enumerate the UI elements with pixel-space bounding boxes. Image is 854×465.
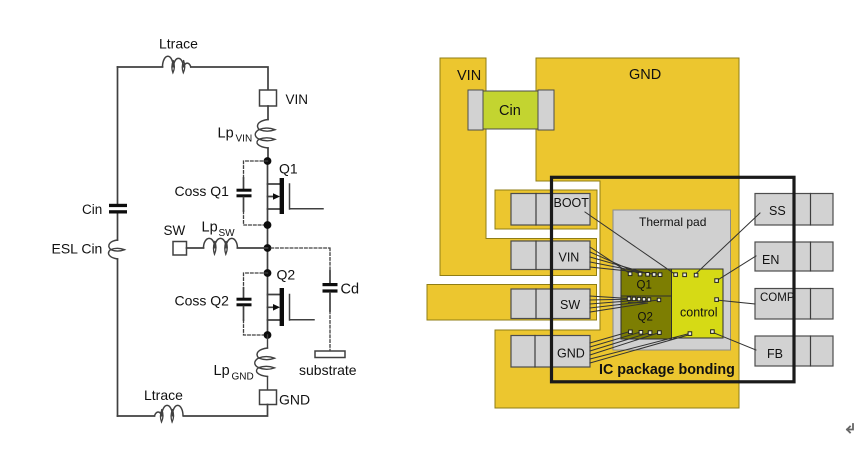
svg-text:VIN: VIN bbox=[236, 134, 253, 145]
svg-text:Cin: Cin bbox=[82, 202, 102, 217]
transistor Q2 bbox=[268, 288, 315, 326]
copper VIN trace bbox=[440, 58, 597, 276]
inductor LpVIN bbox=[255, 120, 275, 149]
bond wires GND pad to Q2 bottom pads bbox=[590, 332, 690, 364]
transistor Q1 bbox=[268, 178, 324, 214]
wire SW to coil bbox=[187, 247, 204, 249]
die Q1 Q2 bbox=[621, 269, 672, 339]
IC package bonding border box bbox=[552, 177, 795, 381]
pad EN bbox=[755, 242, 833, 271]
svg-text:control: control bbox=[680, 306, 718, 320]
capacitor Cin bbox=[109, 204, 127, 214]
pad FB bbox=[755, 336, 833, 366]
node Q1-source bbox=[264, 221, 272, 229]
wire top-left horizontal bbox=[118, 66, 163, 68]
pad symbol VIN bbox=[260, 90, 277, 106]
svg-text:Ltrace: Ltrace bbox=[159, 36, 198, 52]
inductor Ltrace (bottom) bbox=[155, 405, 184, 422]
svg-text:Lp: Lp bbox=[214, 363, 230, 379]
svg-text:IC package bonding: IC package bonding bbox=[599, 362, 735, 378]
pad COMP bbox=[755, 289, 833, 320]
node Q2-drain bbox=[264, 269, 272, 277]
svg-text:Q1: Q1 bbox=[279, 161, 298, 177]
bond pads bottom row Q2 bbox=[629, 330, 662, 334]
svg-text:GND: GND bbox=[557, 347, 585, 361]
svg-text:substrate: substrate bbox=[299, 362, 357, 378]
inductor LpGND bbox=[255, 335, 275, 390]
pad VIN bbox=[511, 241, 590, 270]
svg-text:Q2: Q2 bbox=[277, 267, 296, 283]
pad symbol GND bbox=[260, 390, 277, 405]
svg-text:BOOT: BOOT bbox=[554, 196, 590, 210]
svg-text:Q1: Q1 bbox=[637, 280, 652, 292]
svg-text:EN: EN bbox=[762, 253, 779, 267]
label Lp GND bbox=[214, 363, 254, 383]
svg-text:Lp: Lp bbox=[202, 220, 218, 236]
bond pads row top control bbox=[674, 273, 698, 277]
svg-text:SW: SW bbox=[560, 298, 580, 312]
copper GND plane bbox=[495, 58, 739, 408]
pad SW bbox=[511, 289, 590, 319]
inductor LpSW bbox=[204, 238, 238, 254]
svg-text:Q2: Q2 bbox=[638, 312, 653, 324]
svg-text:SW: SW bbox=[164, 223, 186, 238]
capacitor Cin pad right bbox=[538, 90, 554, 130]
bond wire SS to control bbox=[696, 213, 761, 274]
copper BOOT pad rect bbox=[495, 190, 597, 229]
die divider Q1/Q2 bbox=[621, 295, 672, 297]
inductor Ltrace (top) bbox=[163, 56, 191, 72]
bond wire EN to control bbox=[716, 256, 756, 281]
wire coil to SW node bbox=[237, 247, 267, 249]
wire LpVIN to node bbox=[267, 148, 269, 161]
svg-text:VIN: VIN bbox=[457, 68, 481, 84]
bond wires SW pad to middle pads bbox=[590, 296, 659, 312]
svg-text:Thermal pad: Thermal pad bbox=[639, 215, 706, 229]
pad GND bbox=[511, 336, 590, 368]
paragraph return mark bbox=[847, 424, 853, 433]
svg-text:Coss Q1: Coss Q1 bbox=[175, 183, 230, 199]
bond pads middle row bbox=[627, 297, 660, 302]
svg-text:Ltrace: Ltrace bbox=[144, 387, 183, 403]
wire left vertical upper bbox=[117, 67, 119, 416]
substrate terminal bbox=[315, 351, 345, 358]
capacitor Cd dashed branch bbox=[271, 248, 338, 351]
main vertical wire through Q1 Q2 bbox=[267, 161, 269, 335]
bond wire FB to control bbox=[713, 333, 756, 351]
pad BOOT bbox=[511, 194, 590, 226]
bond pads row top Q1 bbox=[628, 272, 662, 277]
wire top horizontal to VIN corner bbox=[191, 67, 268, 90]
node VIN-Q1 bbox=[264, 157, 272, 165]
svg-text:Cd: Cd bbox=[341, 282, 360, 298]
wire VIN to LpVIN bbox=[267, 106, 269, 120]
svg-text:GND: GND bbox=[232, 372, 254, 383]
svg-text:SW: SW bbox=[219, 228, 236, 239]
bond wire BOOT to control bbox=[585, 212, 674, 274]
bond wires VIN pad to Q1 top pads bbox=[590, 247, 660, 275]
bond pads control right edge bbox=[715, 279, 719, 302]
capacitor Coss Q2 bbox=[237, 273, 268, 335]
label Lp SW bbox=[202, 220, 236, 240]
wire bottom right bbox=[184, 405, 268, 417]
svg-text:ESL Cin: ESL Cin bbox=[52, 241, 103, 257]
thermal pad bbox=[613, 210, 731, 350]
svg-text:Lp: Lp bbox=[218, 126, 234, 142]
svg-text:GND: GND bbox=[279, 392, 310, 408]
svg-text:VIN: VIN bbox=[559, 251, 580, 265]
wire bottom left bbox=[118, 415, 155, 417]
die control bbox=[672, 269, 724, 338]
bond wire COMP to control bbox=[717, 300, 756, 304]
pad symbol SW bbox=[173, 242, 187, 256]
label Lp VIN bbox=[218, 126, 253, 145]
LEFT-SCHEMATIC bbox=[52, 36, 360, 423]
svg-text:GND: GND bbox=[629, 67, 661, 83]
node Q2-source bbox=[264, 331, 272, 339]
svg-text:Coss Q2: Coss Q2 bbox=[175, 293, 230, 309]
svg-text:FB: FB bbox=[767, 347, 783, 361]
RIGHT-PCB-LAYOUT bbox=[427, 58, 853, 433]
bond pads bottom control bbox=[688, 330, 714, 336]
svg-text:COMP: COMP bbox=[760, 292, 795, 304]
pad SS bbox=[755, 194, 833, 226]
svg-text:VIN: VIN bbox=[286, 92, 309, 107]
capacitor Cin pad left bbox=[468, 90, 483, 130]
copper SW trace bbox=[427, 285, 597, 321]
inductor ESL Cin bbox=[109, 240, 125, 259]
svg-text:Cin: Cin bbox=[499, 103, 521, 119]
capacitor Cin body bbox=[483, 91, 538, 129]
node SW bbox=[264, 244, 272, 252]
capacitor Coss Q1 bbox=[237, 161, 268, 225]
svg-text:SS: SS bbox=[769, 204, 786, 218]
